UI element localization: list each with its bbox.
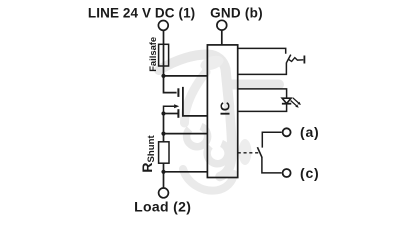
LED D1 triangle [282,98,291,103]
svg-text:(c): (c) [300,165,320,181]
svg-text:GND (b): GND (b) [210,6,263,21]
terminal a [283,128,291,136]
switch S1 moving contact [257,147,262,157]
wire shunt top sense line to IC [164,133,208,135]
junction dot shunt bottom [161,170,165,174]
svg-text:LINE 24 V DC (1): LINE 24 V DC (1) [88,6,195,21]
svg-text:(a): (a) [300,124,320,140]
node B junction dot (source) [161,111,165,115]
transistor Q1 source lead [164,113,178,115]
wire terminal a to switch [262,132,281,147]
terminal c [283,169,291,177]
dashed actuation line IC to switch [238,152,259,154]
terminal LINE (1) [158,21,168,31]
trip element end bar [303,56,305,64]
trip element zigzag latch [288,58,303,62]
wire IC to trip element upper [238,48,286,53]
terminal Load (2) [159,188,169,198]
trip element contact diagonal [286,55,290,63]
svg-text:Failsafe: Failsafe [147,37,158,72]
wire shunt bottom sense line to IC [164,171,208,173]
LED emission arrow 2 [291,101,297,106]
svg-text:IC: IC [218,101,233,116]
wire GND terminal to IC [221,31,223,45]
fuse Failsafe element [159,44,169,66]
LED D1 cathode bar [282,103,291,105]
wire node A to IC [164,75,208,77]
transistor Q1 gate bar and gate wire to IC [183,87,208,116]
watermark [159,53,279,191]
node A junction dot [161,74,165,78]
wire LINE terminal through fuse to node A [163,30,165,76]
transistor Q1 body arrow [164,106,175,113]
resistor R_Shunt [159,142,169,163]
transistor Q1 source contact tick [177,109,179,118]
LED emission arrow 1 [293,98,299,103]
wire IC to trip element lower [238,63,287,75]
wire IC to LED anode [238,89,287,98]
terminal GND (b) [217,20,227,30]
wire node A down and drain lead [164,75,177,93]
svg-text:Load (2): Load (2) [134,199,191,215]
wire LED cathode to IC [238,104,287,112]
wire source node down to shunt [163,114,165,142]
junction dot shunt top [161,132,165,136]
wire switch to terminal c [262,157,282,173]
wire shunt bottom to Load terminal [163,163,165,188]
transistor Q1 drain contact tick [177,88,179,97]
op-amp U1 IC block [207,45,237,178]
